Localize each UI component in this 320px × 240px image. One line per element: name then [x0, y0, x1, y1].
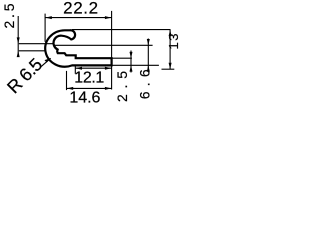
svg-text:12.1: 12.1: [74, 69, 104, 86]
dim 6.6 top extension line: [55, 44, 153, 46]
dim 13 arrow bottom: [169, 63, 172, 69]
dim 2.5 left: dim line: [17, 16, 19, 57]
dim 2.5 web: dim line: [130, 51, 132, 73]
dim 12.1 line: [75, 67, 111, 69]
radius R6.5 leader arrowhead: [45, 58, 52, 63]
profile outline (J-clip cross-section): [45, 30, 111, 66]
dim 22.2 line: [45, 17, 112, 19]
web bottom extension line: [112, 64, 159, 66]
radius R6.5 leader line: [40, 58, 51, 67]
dim 12.1 arrow right: [105, 67, 112, 70]
svg-text:13: 13: [166, 34, 179, 50]
web top extension line: [112, 57, 132, 59]
dim 22.2 arrow right: [105, 16, 112, 19]
dim 2.5 left ext line bottom: [19, 50, 46, 52]
dim 2.5 left ext line top: [19, 43, 54, 45]
svg-text:2.5: 2.5: [1, 3, 17, 28]
dim 2.5 left arrow up: [17, 51, 20, 57]
dim 12.1 arrow left: [76, 67, 83, 70]
svg-text:14.6: 14.6: [69, 90, 100, 107]
dim 13 arrow top: [169, 30, 172, 36]
dim 12.1 left extension line: [74, 66, 76, 74]
dim 13: bottom extension stub: [162, 68, 175, 70]
dim 2.5 left arrow down: [17, 37, 20, 43]
dim 14.6 arrow right: [105, 87, 112, 90]
dim 22.2 extension line right (shared with 12.1/14.6): [111, 11, 113, 90]
dim 14.6 line: [67, 87, 112, 89]
dim 13 line: [169, 30, 171, 70]
svg-text:6.6: 6.6: [137, 69, 153, 99]
dim 14.6 left extension line: [66, 71, 68, 90]
dim 6.6 arrow down: [147, 39, 150, 45]
dim 22.2 arrow left: [45, 16, 52, 19]
svg-text:2.5: 2.5: [114, 71, 130, 102]
dim 13: top extension line: [72, 29, 171, 31]
dim 6.6 arrow up: [147, 65, 150, 71]
svg-text:22.2: 22.2: [63, 0, 98, 17]
dim 2.5 web arrow up: [130, 65, 133, 71]
dim 22.2 extension line left: [44, 14, 46, 42]
dim 14.6 arrow left: [67, 87, 74, 90]
svg-text:R 6.5: R 6.5: [3, 54, 46, 97]
dim 6.6 line: [147, 39, 149, 73]
dim 2.5 web arrow down: [130, 52, 133, 58]
